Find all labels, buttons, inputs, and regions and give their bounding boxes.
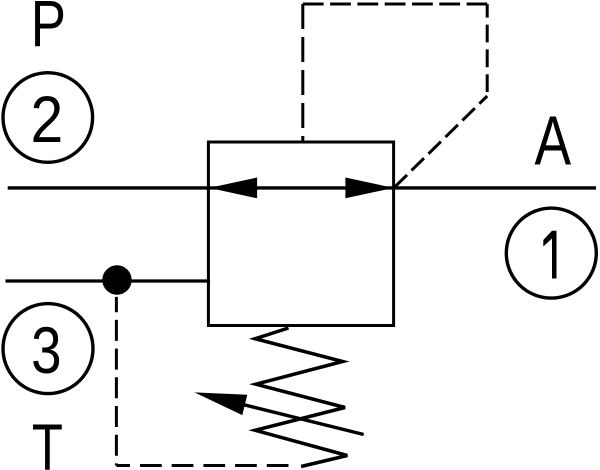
flow arrowhead left [209,178,257,199]
port number 1 [543,231,556,279]
pilot line dashed diagonal [394,96,487,188]
svg-text:P: P [31,0,66,60]
drain line dashed bottom horizontal [116,464,298,467]
drain line dashed vertical from junction [115,297,118,466]
flow arrowhead right [345,178,393,199]
pilot line dashed top horizontal [303,3,487,6]
port circle 1 [506,208,596,298]
svg-text:2: 2 [31,83,64,157]
adjustment arrowhead [194,392,247,415]
pilot line dashed right vertical [486,4,489,96]
pilot line dashed vertical from box top [301,4,304,142]
port circle 3 [3,304,93,394]
spring [255,328,347,467]
svg-text:A: A [535,102,572,180]
port circle 2 [3,73,93,163]
junction dot [102,265,131,294]
svg-text:3: 3 [31,313,61,387]
valve body box [208,142,393,326]
adjustment arrow shaft [222,399,364,434]
wire T line [6,279,211,282]
svg-text:T: T [32,412,63,470]
wire P-A main line [8,186,596,189]
